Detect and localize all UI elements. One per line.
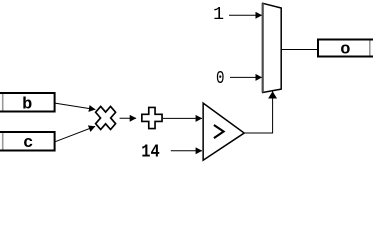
input block b	[0, 93, 55, 115]
wire 1 to mux	[229, 14, 262, 16]
comparator triangle	[203, 103, 244, 160]
wire 0 to mux	[230, 76, 262, 78]
output block o	[318, 40, 373, 60]
mux trapezoid	[263, 3, 282, 92]
wire mux to output	[281, 49, 318, 51]
multiplier X	[96, 106, 116, 129]
wire adder to comparator	[163, 117, 202, 119]
svg-text:0: 0	[216, 68, 225, 89]
comparator label >	[214, 125, 224, 138]
svg-text:14: 14	[141, 143, 160, 163]
wire comparator to mux select	[244, 91, 272, 133]
svg-text:b: b	[22, 96, 32, 115]
svg-text:1: 1	[213, 4, 224, 25]
svg-text:o: o	[340, 40, 350, 59]
svg-text:c: c	[23, 134, 33, 153]
wire c to multiplier	[55, 126, 95, 141]
wire b to multiplier	[55, 103, 95, 109]
mux left edge	[262, 3, 264, 92]
input block c	[0, 132, 55, 153]
wire 14 to comparator	[171, 150, 202, 152]
wire multiplier to adder	[120, 117, 137, 119]
adder plus	[142, 107, 162, 128]
